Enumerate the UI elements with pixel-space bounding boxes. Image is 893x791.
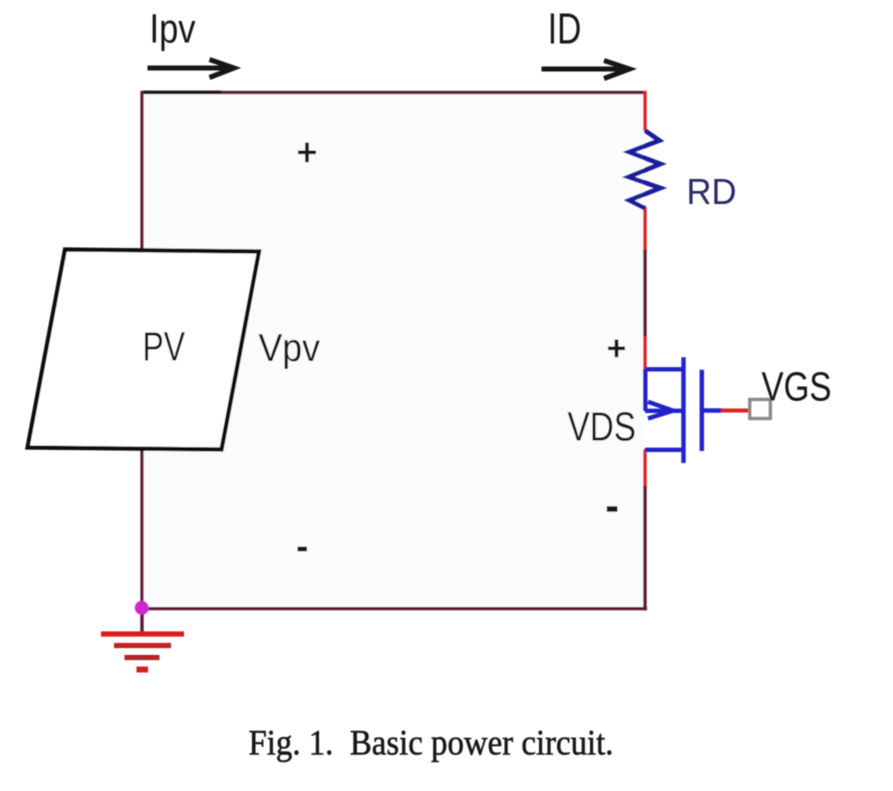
svg-text:Vpv: Vpv (259, 327, 321, 370)
svg-text:VDS: VDS (568, 404, 637, 450)
svg-text:VGS: VGS (762, 363, 832, 409)
svg-text:ID: ID (548, 5, 582, 54)
svg-text:PV: PV (143, 323, 186, 369)
svg-text:RD: RD (687, 171, 737, 212)
svg-text:Ipv: Ipv (150, 5, 196, 51)
svg-text:Fig. 1. Basic power circuit.: Fig. 1. Basic power circuit. (249, 723, 614, 763)
